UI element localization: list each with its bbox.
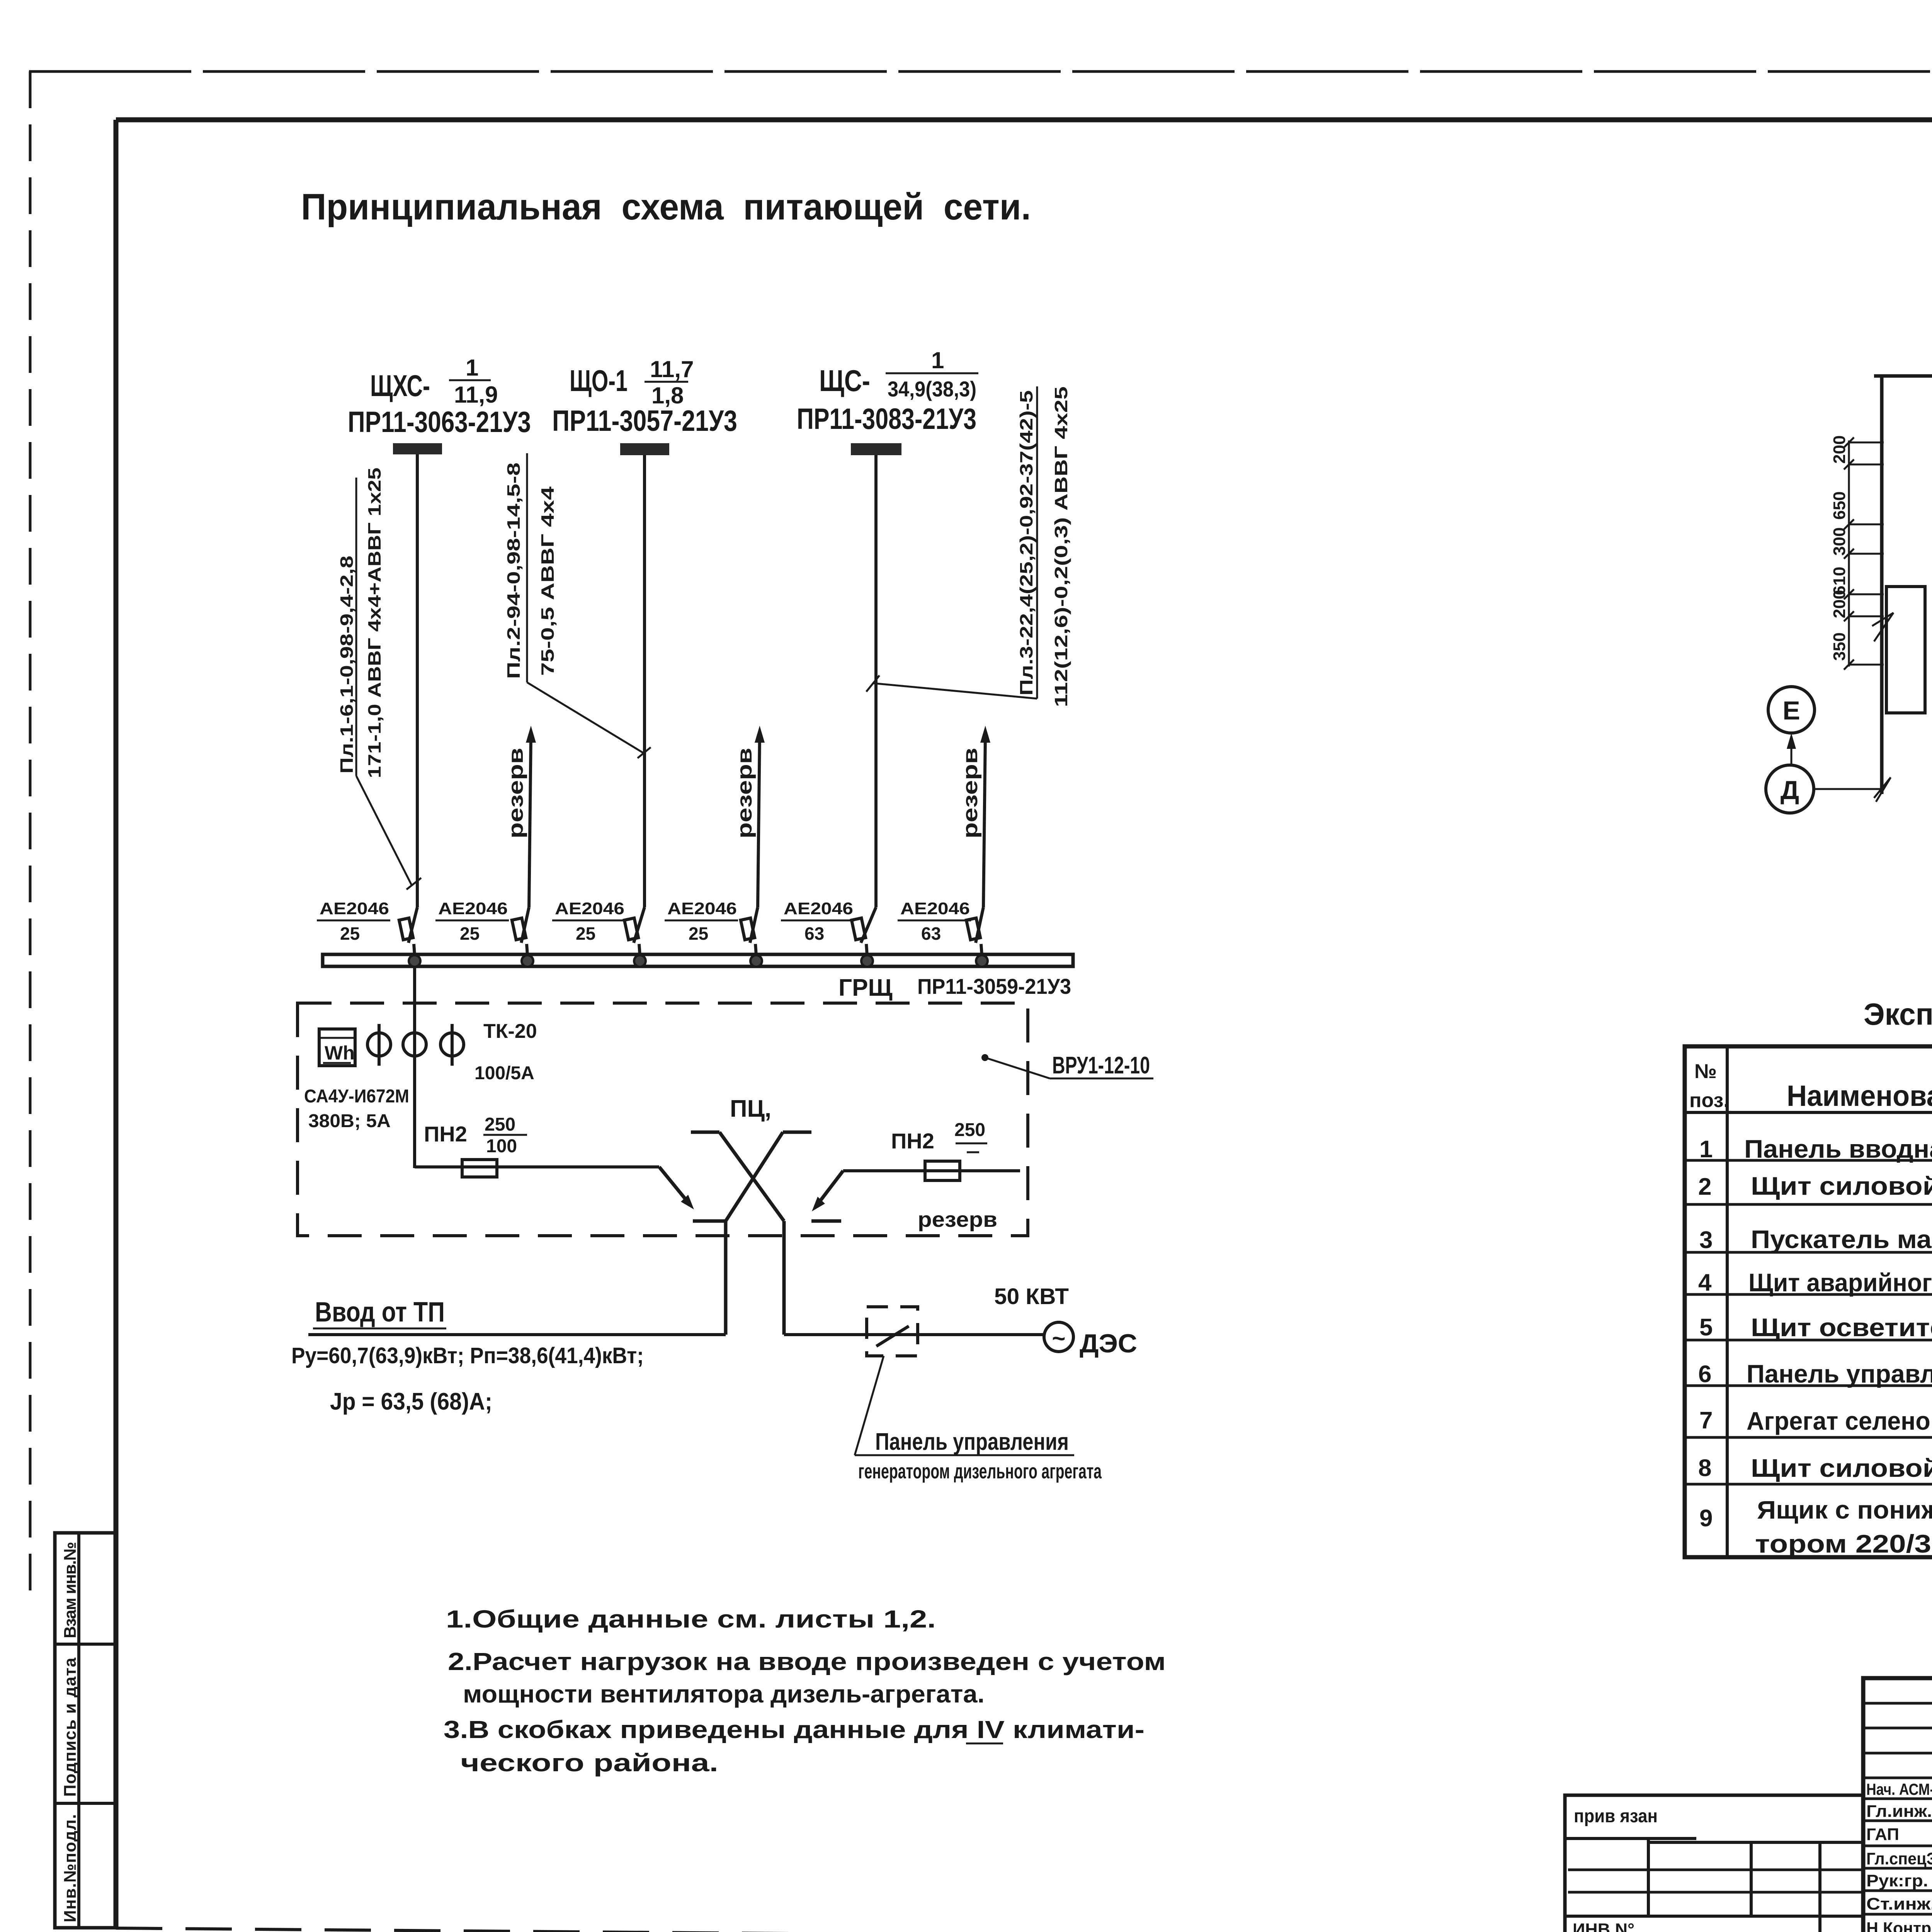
- breaker QF6 АЕ2046/63 (reserve): [898, 899, 983, 955]
- title block signature table: [1863, 1678, 1932, 1932]
- svg-text:9: 9: [1699, 1505, 1713, 1532]
- svg-text:Jр = 63,5 (68)А;: Jр = 63,5 (68)А;: [330, 1388, 492, 1415]
- svg-text:Ввод от ТП: Ввод от ТП: [315, 1297, 445, 1328]
- svg-text:ПН2: ПН2: [891, 1129, 934, 1153]
- svg-text:1: 1: [1699, 1136, 1713, 1163]
- svg-text:3.В скобках приведены данные д: 3.В скобках приведены данные для IV клим…: [444, 1716, 1145, 1743]
- svg-text:25: 25: [576, 923, 595, 944]
- svg-text:63: 63: [804, 923, 824, 944]
- svg-text:мощности вентилятора дизель-аг: мощности вентилятора дизель-агрегата.: [463, 1680, 985, 1708]
- CT ТК-20 phase C: [440, 1024, 464, 1066]
- wire: busbar to metering: [413, 966, 416, 1168]
- svg-text:Гл.спецЭ: Гл.спецЭ: [1866, 1849, 1932, 1868]
- svg-text:Пл.1-6,1-0,98-9,4-2,8: Пл.1-6,1-0,98-9,4-2,8: [337, 556, 357, 774]
- cable label group 3 (Пл.3): [866, 386, 1071, 707]
- plan left dimension chain: [1830, 435, 1884, 670]
- wire: changeover output to ТП input: [724, 1221, 728, 1335]
- CT label ТК-20 100/5А: [474, 1020, 537, 1083]
- svg-text:300: 300: [1830, 527, 1849, 556]
- svg-text:50 КВТ: 50 КВТ: [994, 1284, 1069, 1309]
- table row 7: Агрегат селеновый выпрямительный ВСА-6к: [1699, 1406, 1932, 1438]
- svg-text:100/5А: 100/5А: [474, 1063, 534, 1083]
- svg-text:100: 100: [486, 1136, 517, 1156]
- svg-text:ПР11-3059-21У3: ПР11-3059-21У3: [917, 974, 1071, 998]
- breaker QF1 АЕ2046/25: [317, 899, 417, 955]
- svg-text:1: 1: [466, 355, 478, 381]
- svg-text:350: 350: [1830, 633, 1849, 661]
- breaker QF3 АЕ2046/25: [552, 899, 645, 955]
- plan wall break marks: [1872, 365, 1932, 802]
- table row 3: Пускатель магнитный ПМЛ-221002: [1699, 1225, 1932, 1256]
- svg-text:ИНВ.N°: ИНВ.N°: [1573, 1920, 1634, 1932]
- CT ТК-20 phase B: [403, 1033, 426, 1056]
- svg-text:25: 25: [689, 923, 708, 944]
- svg-text:ГАП: ГАП: [1866, 1825, 1899, 1844]
- svg-text:Н Контр.: Н Контр.: [1866, 1919, 1932, 1932]
- CT ТК-20 phase A: [367, 1024, 391, 1066]
- svg-text:ческого района.: ческого района.: [461, 1749, 718, 1777]
- svg-text:250: 250: [485, 1114, 515, 1135]
- breaker QF2 АЕ2046/25 (reserve): [435, 899, 529, 955]
- svg-text:Ст.инж.: Ст.инж.: [1866, 1895, 1932, 1913]
- svg-text:ЩС-: ЩС-: [819, 364, 870, 398]
- svg-text:Щит аварийного освещения дизел: Щит аварийного освещения дизельной: [1748, 1268, 1932, 1297]
- table row 2: Щит силовой ПР11-3059 ГРЩ: [1698, 1172, 1932, 1203]
- svg-text:8: 8: [1698, 1455, 1711, 1481]
- notes text: [444, 1605, 1166, 1777]
- node: busbar junction 5: [861, 955, 873, 967]
- node: busbar junction 3: [634, 955, 646, 967]
- svg-text:ПЦ,: ПЦ,: [730, 1095, 771, 1122]
- svg-text:АЕ2046: АЕ2046: [667, 899, 737, 918]
- node: busbar junction 6: [976, 955, 988, 967]
- breaker QF4 АЕ2046/25 (reserve): [665, 899, 758, 955]
- svg-text:250: 250: [954, 1120, 985, 1140]
- svg-text:ЩХС-: ЩХС-: [370, 369, 430, 403]
- svg-text:генератором дизельного агрегат: генератором дизельного агрегата: [858, 1460, 1102, 1483]
- svg-text:АЕ2046: АЕ2046: [900, 899, 970, 918]
- svg-text:1.Общие данные см. листы 1,2.: 1.Общие данные см. листы 1,2.: [446, 1605, 936, 1633]
- label: panel of generator control: [855, 1356, 1102, 1483]
- busbar label ГРЩ ПР11-3059-21У3: [838, 974, 1071, 1001]
- svg-text:Взам инв.№: Взам инв.№: [61, 1542, 80, 1638]
- reserve feeder arrow 1: [504, 726, 536, 907]
- svg-text:25: 25: [340, 923, 360, 944]
- svg-text:поз.: поз.: [1689, 1089, 1729, 1112]
- svg-text:ТК-20: ТК-20: [483, 1020, 537, 1043]
- svg-text:2.Расчет нагрузок на вводе про: 2.Расчет нагрузок на вводе произведен с …: [448, 1648, 1166, 1675]
- svg-text:ГРЩ: ГРЩ: [838, 975, 893, 1001]
- svg-text:АЕ2046: АЕ2046: [555, 899, 624, 918]
- table row 9: Ящик с понижающим трансформатором ЯТП-0,25: [1699, 1495, 1932, 1558]
- node: busbar junction 1: [409, 955, 420, 967]
- svg-text:Гл.инж.: Гл.инж.: [1866, 1802, 1932, 1821]
- net Ввод от ТП: [291, 1297, 726, 1415]
- svg-text:резерв: резерв: [959, 748, 982, 838]
- panel ЩС busbar (hatched): [851, 443, 901, 455]
- schematic title: [301, 186, 1031, 228]
- plan axis mark Е: [1768, 687, 1815, 733]
- svg-text:650: 650: [1830, 492, 1849, 520]
- wire: feeder 2 to ЩО-1: [643, 455, 646, 907]
- plan wall niche left: [1886, 587, 1925, 713]
- svg-text:Wh: Wh: [325, 1042, 355, 1064]
- svg-text:Д: Д: [1781, 776, 1799, 805]
- generator control switch (dashed box): [867, 1307, 918, 1356]
- panel ЩО-1 busbar (hatched): [620, 443, 669, 455]
- changeover switch ПЦ: [691, 1095, 811, 1221]
- svg-text:1: 1: [931, 347, 944, 373]
- wire: meter to changeover: [415, 1167, 726, 1221]
- svg-text:АЕ2046: АЕ2046: [438, 899, 508, 918]
- svg-text:ПР11-3083-21У3: ПР11-3083-21У3: [797, 403, 976, 435]
- wire: feeder 1 to ЩХС: [416, 454, 419, 907]
- svg-text:Ящик с понижающим трансформа-: Ящик с понижающим трансформа-: [1757, 1495, 1932, 1524]
- svg-text:Щит осветительный: Щит осветительный: [1751, 1313, 1932, 1342]
- cable label group 1 (Пл.1): [337, 468, 421, 889]
- table row 4: Щит аварийного освещения дизельной: [1698, 1262, 1932, 1298]
- svg-text:Пускатель магнитный: Пускатель магнитный: [1751, 1225, 1932, 1253]
- svg-text:Панель управления генератором: Панель управления генератором: [1747, 1359, 1932, 1388]
- equipment table title: [1864, 997, 1932, 1031]
- reserve feeder arrow 3: [959, 726, 990, 907]
- svg-text:171-1,0 АВВГ 4х4+АВВГ 1х25: 171-1,0 АВВГ 4х4+АВВГ 1х25: [364, 468, 384, 778]
- svg-text:ДЭС: ДЭС: [1080, 1329, 1137, 1358]
- panel ЩХС busbar (hatched): [393, 443, 442, 454]
- cable label group 2 (Пл.2): [503, 453, 651, 758]
- svg-text:75-0,5 АВВГ 4х4: 75-0,5 АВВГ 4х4: [537, 486, 558, 676]
- svg-text:Пл.2-94-0,98-14,5-8: Пл.2-94-0,98-14,5-8: [503, 463, 524, 679]
- svg-text:Панель управления: Панель управления: [875, 1429, 1069, 1455]
- svg-text:ПН2: ПН2: [424, 1122, 467, 1146]
- reserve feeder arrow 2: [733, 726, 765, 907]
- svg-text:~: ~: [1052, 1325, 1065, 1351]
- wire: reserve input to changeover: [811, 1171, 1020, 1221]
- svg-text:резерв: резерв: [504, 748, 527, 838]
- svg-text:Подпись и дата: Подпись и дата: [61, 1657, 80, 1797]
- svg-text:тором 220/36В.: тором 220/36В.: [1755, 1529, 1932, 1558]
- svg-text:Рук:гр.: Рук:гр.: [1866, 1871, 1928, 1890]
- svg-text:Панель вводная: Панель вводная: [1744, 1134, 1932, 1163]
- svg-text:200: 200: [1830, 435, 1849, 464]
- svg-text:Ру=60,7(63,9)кВт; Рп=38,6(41,4: Ру=60,7(63,9)кВт; Рп=38,6(41,4)кВт;: [291, 1343, 644, 1368]
- svg-text:№: №: [1694, 1060, 1717, 1083]
- generator ДЭС 50 кВт: [994, 1284, 1137, 1358]
- cabinet ВРУ dashed enclosure: [298, 1003, 1028, 1236]
- attachment box прив язан: [1565, 1795, 1863, 1932]
- svg-text:63: 63: [921, 923, 941, 944]
- svg-text:6: 6: [1698, 1361, 1711, 1388]
- panel ЩХС label: [348, 355, 531, 439]
- busbar ГРЩ: [323, 954, 1073, 966]
- svg-text:5: 5: [1699, 1314, 1713, 1341]
- svg-text:Нач. АСМ-1: Нач. АСМ-1: [1866, 1780, 1932, 1798]
- fuse FU2 ПН2 250 (reserve input): [891, 1120, 997, 1231]
- svg-text:25: 25: [460, 923, 480, 944]
- plan wall: left outer: [1880, 376, 1884, 794]
- meter Wh СА4У-И672М: [304, 1029, 409, 1131]
- wire: ДЭС branch: [784, 1333, 1044, 1336]
- plan axis mark Д: [1766, 733, 1882, 813]
- svg-text:АЕ2046: АЕ2046: [784, 899, 853, 918]
- svg-text:ПР11-3057-21У3: ПР11-3057-21У3: [552, 405, 737, 437]
- table row 5: Щит осветительный ПР11-3057 ЩО-1: [1699, 1313, 1932, 1344]
- svg-text:Е: Е: [1782, 696, 1800, 725]
- node: busbar junction 2: [522, 955, 533, 967]
- svg-text:прив язан: прив язан: [1574, 1806, 1658, 1827]
- svg-text:11,9: 11,9: [454, 382, 498, 408]
- plan wall: top outer: [1874, 374, 1932, 378]
- svg-text:Агрегат селеновый выпрямительн: Агрегат селеновый выпрямительный: [1747, 1406, 1932, 1435]
- svg-text:ЩО-1: ЩО-1: [570, 364, 628, 398]
- svg-text:ПР11-3063‑21У3: ПР11-3063‑21У3: [348, 406, 531, 439]
- svg-text:АЕ2046: АЕ2046: [320, 899, 389, 918]
- equipment table grid: [1685, 1046, 1932, 1557]
- svg-text:3: 3: [1699, 1227, 1713, 1253]
- table row 1: Панель вводная ВРУ1-12-10: [1699, 1134, 1932, 1165]
- svg-text:2: 2: [1698, 1173, 1711, 1200]
- svg-text:34,9(38,3): 34,9(38,3): [888, 377, 976, 401]
- table row 8: Щит силовой ПР11-3083 ЩС-1: [1698, 1454, 1932, 1486]
- svg-text:112(12,6)-0,2(0,3) АВВГ 4х25: 112(12,6)-0,2(0,3) АВВГ 4х25: [1051, 386, 1071, 707]
- label ВРУ1-12-10 with leader: [981, 1052, 1153, 1079]
- svg-text:380В; 5А: 380В; 5А: [308, 1111, 391, 1131]
- panel ЩО-1 label: [552, 356, 737, 437]
- table row 6: Панель управления генератором ЩУП-91-4-II: [1698, 1347, 1932, 1391]
- panel ЩС label: [797, 347, 978, 435]
- svg-text:ВРУ1-12-10: ВРУ1-12-10: [1052, 1052, 1150, 1079]
- svg-text:резерв: резерв: [918, 1207, 997, 1231]
- svg-text:Пл.3-22,4(25,2)-0,92-37(42)-5: Пл.3-22,4(25,2)-0,92-37(42)-5: [1016, 390, 1036, 696]
- svg-text:4: 4: [1698, 1269, 1712, 1296]
- svg-text:7: 7: [1699, 1407, 1713, 1434]
- wire: feeder 3 to ЩС: [874, 455, 878, 907]
- equipment table header: [1689, 1060, 1932, 1112]
- svg-text:Экспликация оборудования: Экспликация оборудования: [1864, 997, 1932, 1031]
- breaker QF5 АЕ2046/63: [781, 899, 876, 955]
- svg-text:СА4У-И672М: СА4У-И672М: [304, 1086, 409, 1107]
- svg-text:Щит силовой: Щит силовой: [1751, 1454, 1932, 1482]
- svg-text:200: 200: [1830, 590, 1849, 618]
- svg-text:Принципиальная схема питающе: Принципиальная схема питающей сети.: [301, 186, 1031, 228]
- svg-text:резерв: резерв: [733, 748, 756, 838]
- svg-text:Наименование: Наименование: [1787, 1080, 1932, 1112]
- fuse FU1 ПН2 250/100: [424, 1114, 527, 1177]
- svg-text:Щит силовой: Щит силовой: [1751, 1172, 1932, 1200]
- left stamp column: [55, 1533, 116, 1928]
- svg-text:Инв.№подл.: Инв.№подл.: [61, 1814, 80, 1922]
- node: busbar junction 4: [750, 955, 762, 967]
- wire: changeover output to ДЭС input: [782, 1221, 786, 1335]
- svg-text:11,7: 11,7: [650, 356, 694, 382]
